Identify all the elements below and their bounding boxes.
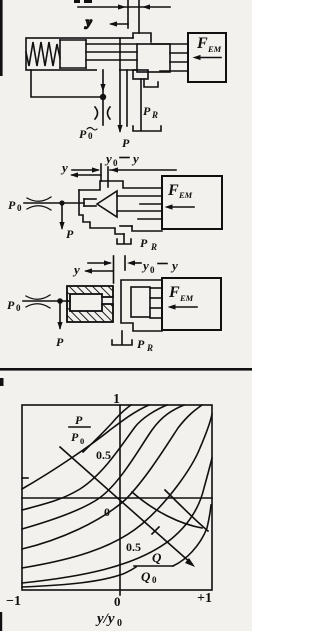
- curve c7 tail: [173, 505, 211, 566]
- svg-text:+1: +1: [197, 591, 212, 606]
- svg-text:R: R: [146, 343, 153, 353]
- bore outline: [70, 294, 102, 311]
- svg-text:P: P: [7, 298, 15, 312]
- piston right wall: [85, 40, 87, 68]
- frame: [22, 405, 212, 590]
- curve c1: [22, 405, 149, 489]
- P branch 3: [59, 301, 61, 328]
- cropped text specks top: [74, 0, 80, 3]
- top tab: [133, 33, 151, 42]
- svg-text:F: F: [168, 284, 180, 301]
- dim line y (lower): [72, 174, 101, 176]
- flow arrow down on supply: [100, 84, 105, 92]
- svg-text:y: y: [60, 160, 68, 175]
- svg-text:EM: EM: [178, 190, 193, 200]
- tick 2: [138, 0, 140, 33]
- dim line y0 (top): [78, 6, 170, 8]
- gap line d: [150, 317, 162, 319]
- gap line top: [151, 43, 188, 45]
- curve c0: [83, 405, 131, 452]
- gap line b2: [140, 203, 162, 205]
- svg-text:y: y: [84, 14, 92, 29]
- svg-text:0: 0: [150, 265, 155, 275]
- svg-text:Q: Q: [141, 569, 151, 584]
- svg-text:0.5: 0.5: [126, 540, 141, 554]
- svg-text:0: 0: [117, 618, 122, 629]
- housing left: [79, 190, 124, 234]
- piston bottom: [60, 67, 86, 69]
- dim line y: [111, 23, 128, 25]
- spring: [26, 42, 60, 66]
- svg-text:y: y: [72, 262, 80, 277]
- link line bottom: [120, 225, 132, 227]
- squiggle lower: [27, 206, 51, 210]
- supply vertical: [102, 70, 104, 125]
- orifice left arc: [95, 107, 98, 119]
- svg-text:y/y: y/y: [95, 611, 115, 627]
- piston top: [60, 39, 86, 41]
- bottom tick: [119, 590, 121, 595]
- P pipe line 1: [119, 70, 121, 131]
- flapper stem tick 1: [100, 164, 102, 181]
- curve c5: [22, 414, 212, 568]
- page edge artifact bottom left: [0, 612, 2, 631]
- svg-text:0: 0: [88, 131, 93, 141]
- svg-text:0: 0: [16, 303, 21, 313]
- svg-text:EM: EM: [179, 293, 194, 303]
- port gap eraser: [97, 69, 119, 72]
- curve c4: [22, 405, 202, 549]
- curve c2: [22, 405, 167, 510]
- tick 1: [127, 0, 129, 28]
- gap line 1: [170, 52, 188, 54]
- gap line a: [150, 287, 162, 289]
- piston left wall: [59, 40, 61, 68]
- valve body outline: [26, 38, 120, 70]
- flapper triangle: [97, 191, 117, 217]
- svg-text:y: y: [170, 258, 178, 273]
- P pipe line 2: [126, 70, 128, 126]
- center horizontal: [22, 497, 212, 499]
- nozzle top: [84, 198, 96, 200]
- dim y line 3: [86, 270, 113, 272]
- nozzle channel bottom: [102, 303, 113, 305]
- block outline: [67, 286, 113, 322]
- nozzle bottom: [84, 205, 96, 207]
- hook h2: [165, 490, 208, 531]
- gap line b: [150, 297, 162, 299]
- bottom tab: [133, 70, 148, 79]
- short tick: [124, 256, 126, 270]
- housing bottom right step: [132, 226, 162, 231]
- svg-text:1: 1: [113, 392, 120, 407]
- left small tick: [22, 477, 28, 479]
- inner spool rect: [131, 287, 150, 317]
- svg-text:P: P: [79, 127, 87, 141]
- svg-text:P: P: [143, 104, 151, 118]
- flapper stem tick 2: [107, 167, 109, 187]
- gap line c2: [138, 218, 162, 220]
- svg-text:P: P: [75, 413, 83, 427]
- dim line 3 top: [88, 262, 110, 264]
- gap line c: [150, 307, 162, 309]
- tank feed 3: [121, 331, 123, 344]
- receiver sleeve: [121, 280, 162, 331]
- svg-text:F: F: [196, 35, 208, 52]
- housing top: [79, 181, 162, 190]
- long tick: [113, 256, 115, 283]
- stem line 2: [86, 51, 137, 53]
- link line mid: [117, 210, 162, 212]
- tank symbol 2: [117, 239, 131, 244]
- F_EM box 1: [188, 33, 226, 82]
- svg-text:0.5: 0.5: [96, 448, 111, 462]
- arrow right toward tick: [118, 4, 126, 9]
- arrow left toward tick: [142, 4, 150, 9]
- P branch down: [61, 203, 63, 228]
- node: [100, 94, 106, 100]
- stem line 3: [86, 59, 137, 61]
- gap line bottom: [160, 70, 188, 72]
- squiggle upper 3: [26, 295, 50, 299]
- nozzle left wall: [83, 199, 85, 206]
- svg-text:0: 0: [114, 594, 121, 609]
- F_EM box 2: [162, 176, 222, 229]
- svg-text:P: P: [122, 136, 130, 150]
- F_EM box 3: [162, 278, 221, 330]
- F_EM arrow 3: [172, 306, 197, 308]
- svg-text:P: P: [56, 335, 64, 349]
- dim line left part: [72, 169, 98, 171]
- svg-text:Q: Q: [152, 550, 162, 565]
- svg-text:P: P: [66, 227, 74, 241]
- svg-text:R: R: [150, 242, 157, 252]
- node 3: [57, 298, 63, 304]
- center vertical: [119, 405, 121, 590]
- bottom extension: [120, 69, 137, 71]
- stem line 1: [86, 43, 137, 45]
- tank symbol 1: [133, 126, 161, 131]
- page edge artifact left top: [0, 0, 3, 76]
- svg-text:y: y: [104, 151, 112, 166]
- tank feed 2: [123, 234, 125, 243]
- svg-text:EM: EM: [207, 44, 222, 54]
- node 2: [59, 200, 64, 205]
- left pipe down: [31, 70, 103, 97]
- arrow left tip: [109, 21, 117, 26]
- nozzle channel top: [102, 296, 113, 298]
- hook h1: [132, 492, 202, 528]
- armature block: [137, 44, 170, 72]
- svg-text:0: 0: [113, 158, 118, 168]
- armature foot: [144, 79, 158, 87]
- svg-text:R: R: [151, 110, 158, 120]
- supply line left: [24, 202, 84, 204]
- F_EM arrow 2: [169, 206, 194, 208]
- hatched block: [67, 286, 113, 322]
- svg-text:0: 0: [80, 436, 84, 446]
- P_R pipe: [140, 79, 142, 130]
- svg-text:y: y: [141, 258, 149, 273]
- tick on axis: [152, 527, 159, 534]
- svg-text:y: y: [131, 151, 139, 166]
- svg-text:0: 0: [17, 203, 22, 213]
- axis arrowhead: [185, 558, 195, 567]
- diagonal axis: [60, 447, 192, 564]
- supply line 3: [23, 300, 70, 302]
- svg-text:0: 0: [152, 575, 157, 585]
- page edge blob mid: [0, 378, 4, 386]
- svg-text:P: P: [8, 198, 16, 212]
- orifice right arc: [108, 107, 111, 119]
- body top extension: [120, 37, 133, 39]
- svg-text:P: P: [137, 337, 145, 351]
- svg-text:P: P: [71, 430, 79, 444]
- svg-text:P: P: [140, 236, 148, 250]
- gap line a2: [117, 195, 162, 197]
- gap line 2: [170, 61, 188, 63]
- tank symbol 3: [112, 340, 132, 345]
- squiggle lower 3: [26, 304, 50, 308]
- svg-text:−1: −1: [6, 594, 21, 609]
- svg-text:F: F: [167, 182, 179, 199]
- dim line right part: [110, 169, 176, 171]
- curve c7 bottom: [22, 567, 136, 587]
- F_EM arrow 1: [197, 57, 221, 59]
- curve c6: [22, 458, 212, 583]
- curve c3: [22, 405, 184, 529]
- squiggle upper: [27, 197, 51, 201]
